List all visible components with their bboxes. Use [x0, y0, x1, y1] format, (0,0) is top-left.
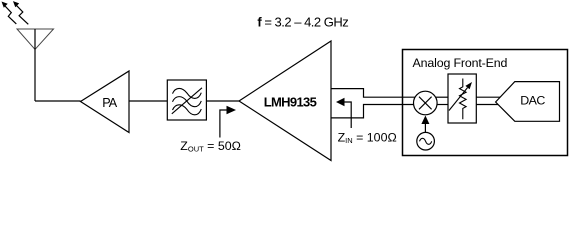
- svg-text:ZIN = 100Ω: ZIN = 100Ω: [338, 131, 397, 146]
- svg-text:LMH9135: LMH9135: [264, 94, 317, 109]
- svg-text:PA: PA: [102, 96, 117, 110]
- svg-text:ZOUT = 50Ω: ZOUT = 50Ω: [180, 139, 241, 154]
- svg-text:DAC: DAC: [520, 94, 545, 108]
- svg-text:Analog Front-End: Analog Front-End: [413, 56, 508, 70]
- svg-text:f = 3.2 – 4.2 GHz: f = 3.2 – 4.2 GHz: [257, 15, 348, 30]
